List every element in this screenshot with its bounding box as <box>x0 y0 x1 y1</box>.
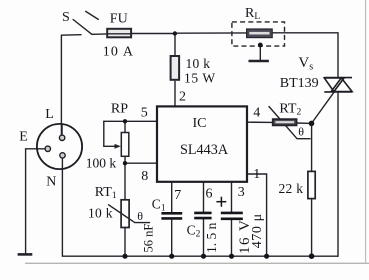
capacitor C3 plates <box>221 213 243 219</box>
wire: RP wiper down <box>103 121 105 146</box>
wire: pin8 node down to RT1 <box>124 163 126 200</box>
wire: RP bottom lead to pin8 node <box>124 156 126 163</box>
svg-text:RP: RP <box>111 101 128 116</box>
RP wiper arrowhead <box>115 144 121 149</box>
resistor RL <box>247 29 273 38</box>
svg-text:470 μ: 470 μ <box>250 213 265 248</box>
junction node: RP bottom / pin8 <box>123 161 127 165</box>
svg-text:FU: FU <box>110 11 128 26</box>
resistor 22k <box>308 171 315 198</box>
wire: fuse to top junction <box>131 33 175 35</box>
faint page rule right <box>365 0 367 263</box>
wire: C2 bottom to rail <box>203 219 205 256</box>
RT2 thermistor diagonal <box>269 107 310 139</box>
svg-text:SL443A: SL443A <box>180 142 229 158</box>
wire: RT2 right lead to gate node <box>297 122 312 124</box>
svg-text:22 k: 22 k <box>279 181 304 196</box>
junction node: RP top <box>123 119 127 123</box>
IC U1 SL443A box <box>157 106 247 181</box>
dashed box around RL <box>232 22 285 46</box>
wire: C2 from pin 6 <box>203 182 205 212</box>
svg-text:1. 5 n: 1. 5 n <box>204 222 219 253</box>
socket circle (mains plug) <box>37 124 82 169</box>
wire: pin 8 <box>125 162 157 164</box>
svg-text:θ: θ <box>298 124 304 138</box>
wire: left vertical from switch corner to socket L pin <box>61 35 81 136</box>
wire: 22k bottom to rail <box>311 199 313 257</box>
wire: C1 from pin 7 <box>171 182 173 212</box>
svg-text:L: L <box>45 107 54 122</box>
svg-text:θ: θ <box>137 209 143 223</box>
wire: RT1 bottom to rail <box>124 228 126 257</box>
wire: RP wiper arrow line <box>104 145 118 147</box>
wire: L pin stub inside socket <box>61 124 63 135</box>
junction node: C3 rail <box>229 254 234 259</box>
svg-text:56 nF: 56 nF <box>142 224 156 253</box>
wire: pin 4 to RT2 <box>247 121 273 123</box>
svg-text:7: 7 <box>174 188 181 203</box>
svg-text:E: E <box>19 129 28 144</box>
earth symbol bar (E) <box>18 253 33 256</box>
wire: C3 from pin 3 <box>231 182 233 212</box>
wire: pin 5 / RP top <box>104 120 157 122</box>
RL bottom terminal bar <box>249 60 269 63</box>
faint page rule bottom <box>25 262 369 264</box>
svg-text:BT139: BT139 <box>280 76 319 91</box>
svg-text:4: 4 <box>253 105 260 120</box>
junction node: pin1 rail <box>264 254 269 259</box>
fuse FU <box>107 29 131 38</box>
wire: top junction to RL dashed box <box>175 32 248 34</box>
wire: RL right side to triac top corner <box>272 33 338 77</box>
junction node: RL bottom tap <box>258 43 263 48</box>
svg-text:IC: IC <box>193 116 207 131</box>
socket pin L <box>59 135 64 140</box>
C3 plus sign <box>216 197 226 207</box>
svg-text:S: S <box>62 10 70 25</box>
svg-text:10 k: 10 k <box>186 56 211 71</box>
svg-text:8: 8 <box>141 169 148 184</box>
wire: gate node down to 22k <box>311 123 313 171</box>
wire: 10k15W to IC pin 2 <box>174 81 176 106</box>
junction node: gate/RT2/22k <box>309 121 315 127</box>
svg-text:10 k: 10 k <box>88 205 113 220</box>
socket pin N <box>60 153 65 158</box>
wire: C1 bottom to rail <box>171 219 173 256</box>
socket pin E <box>45 146 50 151</box>
potentiometer RP <box>121 133 129 157</box>
svg-text:2: 2 <box>179 90 186 105</box>
thermistor RT2 body <box>273 119 297 125</box>
thermistor RT1 body <box>121 200 129 228</box>
svg-text:15 W: 15 W <box>184 71 216 86</box>
svg-text:100 k: 100 k <box>86 156 117 171</box>
svg-text:6: 6 <box>206 187 213 202</box>
capacitor C2 plates <box>194 213 211 218</box>
wire: 10k15W branch from top rail (pin 2) <box>174 34 176 56</box>
junction node: RT1 rail <box>122 254 127 259</box>
triac Vs BT139 <box>324 78 352 92</box>
svg-text:1: 1 <box>253 167 260 182</box>
wire: socket E pin to earth line <box>26 149 46 253</box>
svg-text:10 A: 10 A <box>103 44 134 59</box>
junction node: C2 rail <box>201 254 206 259</box>
wire: RP top lead <box>124 121 126 132</box>
junction node: 22k rail <box>309 253 315 259</box>
junction node: fuse/10k <box>173 31 177 35</box>
svg-text:5: 5 <box>141 105 148 120</box>
wire: RL bottom tap <box>259 45 261 60</box>
wire: triac bottom to bottom rail <box>337 92 339 256</box>
wire: triac gate diagonal <box>312 92 335 123</box>
wire: socket N pin to rail corner, bottom rail <box>62 158 338 256</box>
switch S arm <box>73 20 92 35</box>
wire: C3 bottom to rail <box>231 220 233 256</box>
switch S contact tick <box>86 11 99 19</box>
RT1 thermistor diagonal <box>109 205 150 223</box>
junction node: C1 rail <box>169 254 174 259</box>
wire: switch to fuse <box>92 33 107 35</box>
wire: pin 1 to right then down to rail <box>247 174 267 256</box>
capacitor C1 plates <box>161 213 182 218</box>
svg-text:N: N <box>46 174 56 189</box>
svg-text:3: 3 <box>238 185 245 200</box>
resistor 10k 15W <box>171 56 180 80</box>
